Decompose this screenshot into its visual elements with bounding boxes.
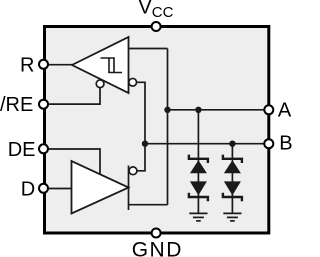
wire A line to pin A — [168, 109, 269, 111]
svg-text:D: D — [21, 179, 35, 201]
receiver U1 triangle — [72, 37, 129, 93]
junction dot B/receiver-driver bus — [142, 141, 148, 147]
receiver inverting input bubble — [129, 78, 137, 86]
hysteresis symbol — [101, 58, 123, 73]
pin R — [39, 60, 48, 69]
pin A — [264, 105, 273, 114]
driver output stem — [128, 166, 130, 211]
svg-text:/RE: /RE — [0, 94, 33, 116]
zener diode D1 (branch 1 upper, cathode up) — [189, 155, 208, 174]
pin B — [264, 139, 273, 148]
IC package outline — [45, 27, 269, 234]
wire DE to driver enable — [44, 149, 101, 175]
zener diode D4 (branch 2 lower, cathode down) — [223, 181, 242, 201]
wire receiver inverting input / driver Z output vertical — [137, 82, 146, 171]
wire A bus vertical (receiver input / driver Y output) — [167, 49, 169, 205]
junction dot B/zener branch 2 — [229, 141, 235, 147]
driver inverting output bubble (Z) — [129, 167, 137, 175]
wire zener branch 1 vertical — [197, 110, 199, 214]
driver U2 triangle — [72, 161, 129, 214]
wire driver Y output tap — [129, 204, 168, 206]
ground symbol branch 1 — [189, 213, 207, 221]
svg-text:GND: GND — [132, 239, 183, 257]
svg-text:DE: DE — [8, 139, 36, 161]
pin DE — [39, 144, 48, 153]
zener diode D3 (branch 2 upper, cathode up) — [223, 155, 242, 174]
wire B line to pin B — [145, 143, 269, 145]
wire receiver non-inverting input from A bus — [129, 48, 168, 50]
wire /RE to receiver enable bubble — [44, 88, 101, 104]
ground symbol branch 2 — [223, 213, 241, 221]
pin GND — [152, 229, 161, 238]
svg-text:B: B — [279, 132, 292, 154]
pin D — [39, 184, 48, 193]
receiver enable bubble (/RE) — [96, 80, 104, 88]
wire R output (receiver tip to pin R) — [44, 64, 73, 66]
wire D input to driver — [44, 188, 72, 190]
pin /RE — [39, 100, 48, 109]
wire zener branch 2 vertical — [231, 144, 233, 214]
junction dot A/zener branch 1 — [195, 107, 201, 113]
junction dot A/receiver-driver bus — [164, 107, 170, 113]
svg-text:R: R — [20, 54, 34, 76]
svg-text:A: A — [278, 100, 292, 122]
svg-text:VCC: VCC — [138, 0, 173, 21]
pin VCC — [152, 22, 161, 31]
zener diode D2 (branch 1 lower, cathode down) — [189, 181, 208, 201]
